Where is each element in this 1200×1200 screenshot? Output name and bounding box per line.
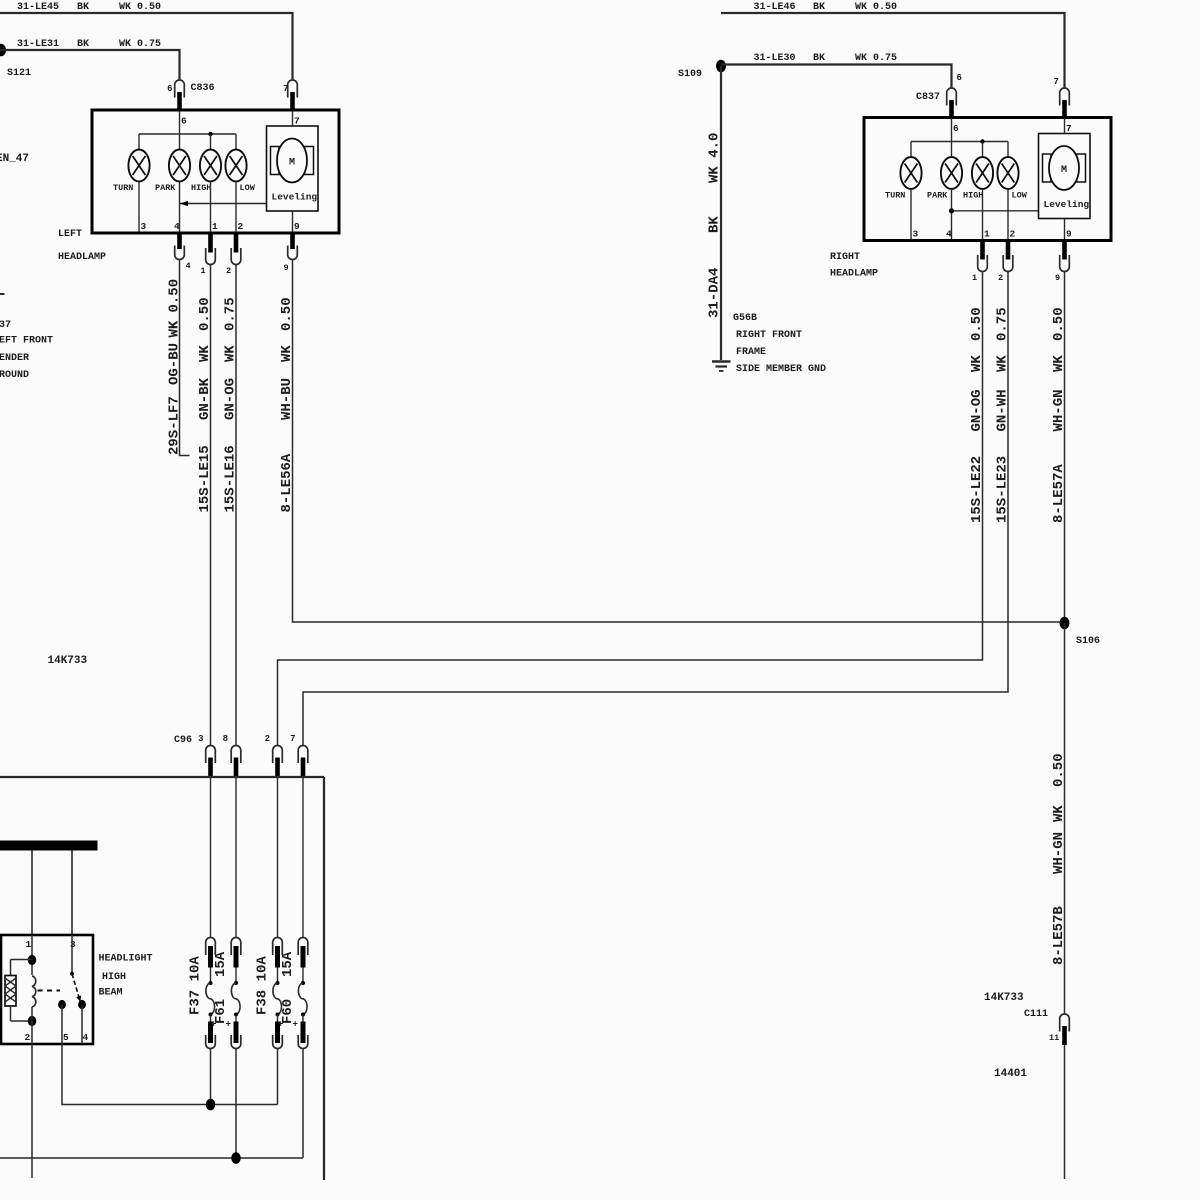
label G56B — [733, 313, 826, 375]
wire relay pin 5 to fuses F37/F38 — [62, 1044, 278, 1105]
motor bracket left-left — [271, 147, 280, 175]
label wire 31-LE45 BK WK 0.50 — [17, 2, 161, 13]
svg-text:WK 0.75: WK 0.75 — [855, 53, 897, 64]
svg-text:BK: BK — [813, 53, 825, 64]
relay contact dot pin 4 — [78, 1000, 86, 1009]
svg-text:9: 9 — [284, 263, 289, 273]
svg-text:7: 7 — [1054, 77, 1059, 87]
wire left pin 6 internal feed — [179, 111, 181, 150]
lamp PARK right — [941, 157, 962, 189]
svg-text:1: 1 — [212, 221, 218, 232]
left internal top bus — [139, 133, 236, 135]
label wire 8-LE57A WH-GN WK 0.50 — [1051, 307, 1067, 523]
svg-text:14K733: 14K733 — [48, 655, 88, 667]
label wire 31-LE30 BK WK 0.75 — [754, 53, 898, 64]
svg-text:29S-LF7: 29S-LF7 — [167, 396, 183, 455]
relay switch blade — [72, 974, 81, 1002]
relay suppression resistor branch wire bottom — [10, 1006, 12, 1021]
svg-text:WK: WK — [1051, 355, 1067, 372]
lamp TURN left — [128, 150, 149, 182]
wire 31-LE31 BK (from S121 to left headlamp pin 6) — [0, 50, 180, 80]
svg-text:HIGH: HIGH — [191, 183, 211, 193]
label wire 31-DA4 BK WK 4.0 — [707, 133, 723, 318]
svg-text:1: 1 — [201, 266, 206, 276]
wire pin 7 to leveling box (right) — [1064, 119, 1066, 134]
svg-text:9: 9 — [1066, 229, 1072, 240]
relay pin 1 internal wire — [31, 935, 33, 975]
connector below left pin 1 — [206, 233, 216, 265]
connector C837 pin 6 — [947, 88, 957, 119]
svg-text:WH-BU: WH-BU — [279, 378, 295, 420]
wire drop to TURN lamp (right) — [910, 142, 912, 158]
svg-text:0.50: 0.50 — [279, 297, 295, 331]
svg-text:1: 1 — [26, 939, 32, 950]
wire fuse F61 bottom down — [235, 1049, 237, 1159]
fuse F38 10A — [273, 938, 283, 1049]
label wire 31-LE31 BK WK 0.75 — [17, 39, 161, 50]
svg-text:3: 3 — [141, 221, 147, 232]
wire 8-LE57B WH-GN (S106 to C111 pin 11) — [1064, 623, 1066, 1014]
relay suppression resistor branch wire top — [11, 959, 33, 961]
connector C96 pin 7 — [298, 746, 308, 777]
svg-text:31-LE31: 31-LE31 — [17, 39, 59, 50]
svg-text:TURN: TURN — [113, 183, 133, 193]
right internal top bus — [911, 141, 1008, 143]
wire 15S-LE16 GN-OG (left pin 2 to C96 pin 8) — [235, 265, 237, 747]
svg-text:LEFT: LEFT — [58, 229, 82, 240]
svg-text:4: 4 — [946, 229, 952, 240]
motor bracket left-right — [305, 147, 314, 175]
junction dot F37/relay5 — [206, 1099, 216, 1111]
wire drop to LOW lamp (right) — [1007, 142, 1009, 158]
right leveling feed bus (pin4 to leveling motor) — [949, 208, 1039, 213]
svg-text:S109: S109 — [678, 69, 702, 80]
wire 31-LE46 BK (power feed to right headlamp pin 7) — [721, 13, 1065, 88]
svg-text:BK: BK — [77, 39, 89, 50]
lamp PARK left — [169, 150, 190, 182]
connector C96 pin 3 — [206, 745, 216, 776]
svg-text:2: 2 — [238, 221, 244, 232]
wire pin 7 to leveling box (left) — [292, 111, 294, 126]
svg-text:WK 4.0: WK 4.0 — [707, 133, 723, 183]
svg-text:4: 4 — [174, 221, 180, 232]
svg-text:OG-BU: OG-BU — [167, 343, 183, 385]
svg-text:WK 0.50: WK 0.50 — [855, 2, 897, 13]
connector below right pin 2 — [1003, 241, 1013, 272]
svg-text:3: 3 — [913, 229, 919, 240]
motor circle M right — [1049, 146, 1079, 190]
svg-text:BK: BK — [707, 216, 723, 233]
svg-text:FENDER: FENDER — [0, 353, 29, 364]
label wire 8-LE57B WH-GN WK 0.50 — [1051, 753, 1067, 965]
lamp HIGH left — [200, 150, 221, 182]
svg-text:15S-LE23: 15S-LE23 — [995, 456, 1011, 523]
lamp LOW right — [997, 157, 1018, 189]
wire LOW lamp to pin 2 (right) — [1007, 189, 1009, 239]
svg-text:0.75: 0.75 — [223, 297, 239, 331]
svg-text:6: 6 — [167, 84, 172, 94]
label fuse F61 15A — [213, 951, 229, 1024]
wire stub at left margin — [0, 293, 5, 295]
svg-text:GN-OG: GN-OG — [223, 378, 239, 420]
svg-text:S121: S121 — [7, 68, 31, 79]
svg-text:M: M — [1061, 165, 1067, 176]
svg-text:+: + — [211, 1020, 216, 1030]
relay suppression resistor — [5, 976, 16, 1007]
wire leveling box to pin 9 (right) — [1064, 219, 1066, 240]
lamp HIGH right — [972, 157, 993, 189]
svg-text:15S-LE16: 15S-LE16 — [223, 445, 239, 512]
svg-text:8-LE56A: 8-LE56A — [279, 453, 295, 512]
svg-text:6: 6 — [953, 123, 959, 134]
connector below left pin 4 — [175, 233, 185, 260]
svg-text:31-LE46: 31-LE46 — [754, 2, 796, 13]
label wire 29S-LF7 OG-BU WK 0.50 — [167, 279, 183, 455]
wire PARK lamp to pin 4 (right) — [951, 189, 953, 239]
svg-text:11: 11 — [1049, 1033, 1059, 1043]
wire 31-DA4 BK (S109 to ground G56B) — [720, 66, 722, 360]
lamp LOW left — [225, 150, 246, 182]
wire C96 pin 8 to fuse F61 — [235, 777, 237, 938]
svg-text:C96: C96 — [174, 735, 192, 746]
svg-text:FRAME: FRAME — [736, 347, 766, 358]
svg-text:1: 1 — [984, 229, 990, 240]
relay coil junction dot top — [28, 955, 37, 965]
relay pin 3 internal wire — [71, 935, 73, 974]
svg-text:TURN: TURN — [885, 191, 905, 201]
svg-text:BK: BK — [813, 2, 825, 13]
relay coil to pin 2 wire — [31, 1007, 33, 1044]
svg-text:15A: 15A — [280, 951, 296, 977]
svg-text:2: 2 — [998, 273, 1003, 283]
left leveling feed bus (pin4 to leveling motor) — [180, 201, 267, 206]
wire C96 pin 3 to fuse F37 — [210, 777, 212, 938]
wire busbar to relay pin 1 — [31, 851, 33, 936]
connector C96 pin 8 — [231, 745, 241, 776]
svg-text:+: + — [278, 1020, 283, 1030]
svg-text:2: 2 — [226, 266, 231, 276]
connector C96 pin 2 — [273, 746, 283, 777]
svg-text:31-LE30: 31-LE30 — [754, 53, 796, 64]
connector C111 pin 11 — [1060, 1014, 1070, 1045]
svg-text:BK: BK — [77, 2, 89, 13]
svg-text:G37: G37 — [0, 320, 11, 331]
svg-text:C836: C836 — [191, 83, 215, 94]
svg-text:7: 7 — [290, 734, 295, 744]
label G37 ground (cut at margin) — [0, 320, 53, 381]
wire PARK lamp to pin 4 (left) — [179, 182, 181, 232]
wire HIGH lamp to pin 1 (right) — [982, 189, 984, 239]
svg-text:M: M — [289, 158, 295, 169]
svg-text:WK: WK — [197, 345, 213, 362]
wire drop to LOW lamp (left) — [235, 134, 237, 150]
svg-text:PARK: PARK — [927, 191, 948, 201]
fuse/relay box top edge — [0, 776, 324, 778]
svg-text:WK: WK — [279, 345, 295, 362]
relay pin 5 internal wire — [61, 1005, 63, 1045]
svg-text:S106: S106 — [1076, 636, 1100, 647]
svg-text:9: 9 — [294, 221, 300, 232]
junction dot on left top bus at HIGH — [208, 132, 212, 136]
svg-text:F38 10A: F38 10A — [255, 956, 271, 1015]
power busbar — [0, 841, 98, 851]
leveling motor box right — [1039, 134, 1091, 219]
svg-text:LOW: LOW — [1012, 191, 1028, 201]
svg-text:7: 7 — [1066, 123, 1072, 134]
svg-text:2: 2 — [1010, 229, 1016, 240]
svg-text:LOW: LOW — [240, 183, 256, 193]
connector below right pin 9 — [1060, 241, 1070, 272]
wire drop to TURN lamp (left) — [138, 134, 140, 150]
svg-text:F37 10A: F37 10A — [188, 956, 204, 1015]
wire leveling box to pin 9 (left) — [292, 211, 294, 232]
fuse F61 15A — [231, 937, 241, 1048]
svg-text:6: 6 — [957, 73, 962, 83]
wire LOW lamp to pin 2 (left) — [235, 182, 237, 232]
svg-text:5: 5 — [63, 1032, 69, 1043]
svg-text:WK 0.75: WK 0.75 — [119, 39, 161, 50]
svg-text:HEADLAMP: HEADLAMP — [58, 252, 106, 263]
svg-text:4: 4 — [83, 1032, 89, 1043]
splice S109 — [716, 60, 726, 73]
wire below C111 into 14401 harness — [1064, 1045, 1066, 1179]
wire drop to HIGH lamp (right) — [982, 142, 984, 158]
motor circle M left — [277, 139, 307, 183]
label wire 8-LE56A WH-BU WK 0.50 — [279, 297, 295, 512]
svg-text:3: 3 — [198, 734, 203, 744]
svg-text:0.75: 0.75 — [995, 307, 1011, 341]
right headlamp enclosure — [864, 118, 1111, 241]
footnote marks near F61 — [211, 1020, 231, 1030]
svg-text:WK: WK — [969, 355, 985, 372]
svg-text:4: 4 — [186, 261, 191, 271]
svg-text:2: 2 — [25, 1032, 31, 1043]
fuse/relay box right edge — [323, 777, 325, 1180]
connector C836 pin 6 — [175, 80, 185, 111]
svg-text:0.50: 0.50 — [969, 307, 985, 341]
svg-text:9: 9 — [1055, 273, 1060, 283]
label fuse F60 15A — [280, 951, 296, 1024]
splice S121 — [0, 44, 6, 57]
svg-text:14401: 14401 — [994, 1068, 1027, 1080]
wire fuse F60 bottom down — [302, 1049, 304, 1159]
svg-text:BEAM: BEAM — [99, 988, 123, 999]
relay coupling dashed link — [38, 990, 61, 992]
svg-text:8-LE57B: 8-LE57B — [1051, 906, 1067, 965]
svg-text:1: 1 — [972, 273, 977, 283]
ground G56B right front frame side member — [712, 362, 731, 372]
wire 29S-LF7 OG-BU (left pin 4, stub end) — [180, 260, 190, 456]
label RIGHT HEADLAMP — [830, 252, 878, 280]
motor bracket right-left — [1043, 154, 1052, 182]
svg-text:RIGHT FRONT: RIGHT FRONT — [736, 330, 802, 341]
svg-text:15S-LE15: 15S-LE15 — [197, 445, 213, 512]
wire TURN lamp to pin 3 (left) — [138, 182, 140, 232]
lamp TURN right — [900, 157, 921, 189]
wire TURN lamp to pin 3 (right) — [910, 189, 912, 239]
relay K (headlight high beam) enclosure — [1, 935, 93, 1044]
connector below left pin 2 — [231, 233, 241, 265]
splice S106 — [1060, 617, 1070, 630]
fuse F60 15A — [298, 938, 308, 1049]
relay coil (inductor) — [32, 976, 36, 1007]
wire 8-LE57A WH-GN (right pin 9 to splice S106) — [1064, 272, 1066, 623]
svg-text:HIGH: HIGH — [102, 972, 126, 983]
junction dot F61/bottom feed — [231, 1152, 241, 1164]
label HEADLIGHT HIGH BEAM — [99, 954, 153, 999]
label wire 15S-LE23 GN-WH WK 0.75 — [995, 307, 1011, 523]
label wire 15S-LE15 GN-BK WK 0.50 — [197, 297, 213, 512]
wire fuse F38 bottom to junction — [277, 1049, 279, 1105]
relay coil junction dot bottom — [28, 1016, 37, 1026]
wire HIGH lamp to pin 1 (left) — [210, 182, 212, 232]
svg-text:SIDE MEMBER GND: SIDE MEMBER GND — [736, 364, 826, 375]
junction dot on right top bus at HIGH — [980, 139, 984, 143]
wire 15S-LE15 GN-BK (left pin 1 to C96 pin 3) — [210, 265, 212, 747]
svg-text:C837: C837 — [916, 92, 940, 103]
label LEFT HEADLAMP — [58, 229, 106, 263]
svg-text:WH-GN: WH-GN — [1051, 389, 1067, 431]
fuse F37 10A — [206, 937, 216, 1048]
relay contact dot pin 5 — [58, 1000, 66, 1009]
svg-text:PARK: PARK — [155, 183, 176, 193]
svg-text:15A: 15A — [213, 951, 229, 977]
wire drop to HIGH lamp (left) — [210, 134, 212, 150]
wire relay pin 2 down — [31, 1044, 33, 1178]
connector C836 pin 7 — [288, 80, 298, 111]
svg-text:HEADLAMP: HEADLAMP — [830, 269, 878, 280]
svg-text:8: 8 — [223, 734, 228, 744]
wire C96 pin 7 to fuse F60 — [302, 777, 304, 938]
svg-text:WH-GN: WH-GN — [1051, 832, 1067, 874]
wire 15S-LE23 GN-WH (right pin 2 to C96 pin 7) — [303, 272, 1008, 747]
wire right pin 6 internal feed — [951, 119, 953, 158]
bottom feed wire to left margin — [0, 1157, 303, 1159]
svg-text:6: 6 — [181, 116, 187, 127]
svg-text:WK: WK — [223, 345, 239, 362]
svg-text:0.50: 0.50 — [197, 297, 213, 331]
svg-text:14K733: 14K733 — [984, 992, 1024, 1004]
footnote marks near F60 — [278, 1020, 298, 1030]
wire fuse F37 bottom to junction — [210, 1049, 212, 1105]
label wire 15S-LE16 GN-OG WK 0.75 — [223, 297, 239, 512]
svg-text:GN-BK: GN-BK — [197, 377, 213, 420]
svg-text:G56B: G56B — [733, 313, 757, 324]
svg-text:EN_47: EN_47 — [0, 153, 29, 165]
svg-text:HIGH: HIGH — [963, 191, 983, 201]
svg-text:31-DA4: 31-DA4 — [707, 268, 723, 318]
wire C96 pin 2 to fuse F38 — [277, 777, 279, 938]
svg-text:0.50: 0.50 — [167, 279, 183, 313]
svg-text:WK: WK — [1051, 805, 1067, 822]
svg-text:15S-LE22: 15S-LE22 — [969, 456, 985, 523]
wire 8-LE56A WH-BU (left pin 9 to splice S106) — [293, 260, 1065, 623]
label wire 31-LE46 BK WK 0.50 — [754, 2, 898, 13]
svg-text:0.50: 0.50 — [1051, 753, 1067, 787]
svg-text:GROUND: GROUND — [0, 370, 29, 381]
svg-text:WK 0.50: WK 0.50 — [119, 2, 161, 13]
wire 31-LE45 BK (power feed to left headlamp pin 7) — [0, 13, 293, 80]
motor bracket right-right — [1077, 154, 1086, 182]
svg-text:3: 3 — [70, 939, 76, 950]
svg-text:+: + — [293, 1020, 298, 1030]
svg-text:HEADLIGHT: HEADLIGHT — [99, 954, 153, 965]
leveling motor box left — [267, 126, 319, 211]
svg-text:Leveling: Leveling — [1044, 199, 1090, 210]
svg-text:0.50: 0.50 — [1051, 307, 1067, 341]
svg-text:LEFT FRONT: LEFT FRONT — [0, 336, 53, 347]
svg-text:WK: WK — [995, 355, 1011, 372]
svg-text:C111: C111 — [1024, 1009, 1048, 1020]
connector below left pin 9 — [288, 233, 298, 259]
wire 31-LE30 BK (from S109 to right headlamp pin 6) — [721, 65, 952, 89]
left headlamp enclosure — [92, 110, 339, 233]
svg-text:GN-WH: GN-WH — [995, 389, 1011, 431]
wire 15S-LE22 GN-OG (right pin 1 to C96 pin 2) — [278, 272, 983, 747]
svg-text:GN-OG: GN-OG — [969, 389, 985, 431]
connector below right pin 1 — [978, 241, 988, 272]
relay pin 4 internal wire — [81, 1005, 83, 1045]
svg-text:7: 7 — [294, 116, 300, 127]
svg-text:31-LE45: 31-LE45 — [17, 2, 59, 13]
svg-text:Leveling: Leveling — [272, 192, 318, 203]
svg-text:WK: WK — [167, 320, 183, 337]
relay switch hinge dot — [70, 972, 74, 976]
svg-text:2: 2 — [265, 734, 270, 744]
svg-text:7: 7 — [283, 84, 288, 94]
svg-text:8-LE57A: 8-LE57A — [1051, 464, 1067, 523]
svg-text:RIGHT: RIGHT — [830, 252, 860, 263]
label wire 15S-LE22 GN-OG WK 0.50 — [969, 307, 985, 523]
wire busbar to relay pin 3 — [71, 851, 73, 936]
connector C837 pin 7 — [1060, 88, 1070, 119]
svg-text:+: + — [226, 1020, 231, 1030]
